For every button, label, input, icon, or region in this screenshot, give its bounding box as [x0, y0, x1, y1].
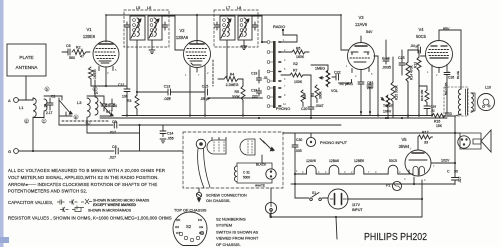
svg-text:INPUT: INPUT [352, 208, 363, 212]
wire screw drop [198, 188, 201, 202]
coil L6 slug arrow [149, 19, 159, 38]
wire V5 cathode drop [421, 180, 423, 217]
svg-text:35W4: 35W4 [399, 144, 410, 149]
wire V3 plate out [374, 56, 378, 116]
svg-text:C21: C21 [347, 82, 353, 86]
ground can1 [149, 47, 155, 54]
coil L8 slug arrow [239, 19, 249, 38]
phono cartridge body [207, 140, 226, 154]
resistor R14 [406, 62, 410, 118]
svg-text:RESISTOR VALUES , SHOWN IN OHM: RESISTOR VALUES , SHOWN IN OHMS, K=1000 … [8, 216, 172, 221]
node B [75, 115, 77, 119]
pilot lamp P1 [392, 181, 401, 190]
wire V4 cathode resistor drop [431, 70, 433, 116]
capacitor C11 [163, 22, 168, 30]
svg-text:2.2MEG: 2.2MEG [226, 83, 239, 87]
transformer T1 core [466, 89, 468, 115]
svg-text:54V: 54V [366, 30, 373, 34]
svg-text:390K: 390K [319, 90, 323, 99]
svg-text:ARROW◂—— INDICATES CLOCKWISE R: ARROW◂—— INDICATES CLOCKWISE ROTATION OF… [8, 182, 157, 187]
wire bottom return [270, 216, 422, 218]
capacitor C1 trimmer [47, 98, 53, 110]
svg-text:EXCEPT WHERE MARKED: EXCEPT WHERE MARKED [93, 203, 137, 207]
svg-text:50C5: 50C5 [416, 34, 427, 39]
capacitor C5 gang section [100, 102, 113, 116]
ground C14 [160, 139, 166, 143]
svg-text:VOLT METER,NO SIGNAL, APPLIED,: VOLT METER,NO SIGNAL, APPLIED,WITH S2 IN… [8, 175, 159, 180]
capacitor C25 [399, 60, 405, 75]
S2 rear view wafer [173, 212, 207, 246]
svg-text:R15 330K: R15 330K [395, 85, 399, 100]
coil L7 turns [227, 18, 229, 36]
wire R7 out [309, 75, 311, 105]
svg-text:560: 560 [69, 56, 75, 60]
resistor R17 [418, 135, 433, 139]
heater bump V2 [323, 165, 348, 174]
phono input pin [310, 141, 312, 143]
wire V5 plate up [417, 142, 419, 151]
svg-text:L10: L10 [485, 86, 491, 90]
svg-text:R7: R7 [293, 69, 298, 73]
interlock socket box [460, 133, 481, 149]
node C [43, 119, 46, 123]
svg-text:1MEG: 1MEG [315, 67, 325, 71]
wire bottom stub [336, 217, 337, 239]
svg-text:.01: .01 [263, 76, 268, 80]
wire antenna lead [19, 76, 27, 100]
coil L1 [33, 98, 36, 117]
coil L6 turns [154, 18, 156, 36]
wire V3 grid in [341, 49, 349, 51]
svg-text:PHONO: PHONO [276, 106, 290, 111]
svg-text:.017: .017 [109, 131, 116, 135]
potentiometer R12 tone [381, 95, 390, 107]
coil L5 winding box [130, 16, 145, 40]
capacitor C24 [383, 50, 389, 64]
motor connector pins [270, 170, 272, 177]
heater bump V3 [305, 165, 323, 174]
wire gang frame left [44, 96, 62, 100]
heater bump V4 [372, 165, 405, 174]
svg-text:C22: C22 [334, 71, 341, 75]
tube V1 pins [99, 67, 113, 72]
svg-text:RADIO: RADIO [273, 24, 285, 29]
wire R15 top [392, 57, 394, 82]
resistor R5 [241, 86, 245, 103]
wire L1 top [19, 98, 34, 100]
svg-text:V1: V1 [86, 27, 92, 32]
ground can2 [241, 40, 247, 50]
svg-text:12BA6: 12BA6 [176, 35, 189, 40]
svg-text:.056: .056 [167, 137, 174, 141]
interlock socket [458, 136, 470, 148]
wire R4 left [218, 78, 224, 80]
wire ground G line [19, 150, 114, 152]
wire R1 bottom [91, 83, 127, 86]
tube V3 plate bar [355, 45, 367, 47]
tube V4 grids [428, 50, 449, 56]
tube V4 50C5 envelope [426, 41, 453, 68]
capacitor C-input V4 [414, 47, 426, 56]
svg-text:30: 30 [454, 170, 458, 174]
svg-text:100K: 100K [294, 80, 303, 84]
capacitor C21 [358, 80, 364, 116]
capacitor C9 [114, 122, 117, 128]
svg-text:50C5: 50C5 [389, 159, 397, 163]
wire V2 plate up [196, 15, 198, 44]
phono speed adjuster [260, 139, 274, 152]
wire 102V drop [454, 116, 456, 176]
svg-text:V5: V5 [401, 137, 407, 142]
wire L7 bottom drop [226, 40, 228, 79]
wire R14 top [407, 50, 409, 62]
svg-text:R3: R3 [127, 99, 131, 103]
svg-text:ANTENNA: ANTENNA [16, 65, 39, 70]
tube V1 plate bar [99, 43, 113, 45]
svg-text:R16: R16 [434, 120, 440, 124]
wire tone bottom [387, 105, 389, 118]
wire V5 output [431, 162, 455, 164]
svg-text:S2: S2 [186, 224, 192, 229]
svg-text:R18 150: R18 150 [420, 89, 424, 101]
wire V2 pins drops [189, 72, 191, 116]
wire osc section frame [87, 96, 104, 99]
wire S2 radio out [281, 30, 297, 42]
svg-text:C30: C30 [296, 138, 302, 142]
tube V3 grid dash [350, 57, 370, 59]
svg-text:9-17: 9-17 [106, 110, 113, 114]
svg-text:P1: P1 [386, 184, 390, 188]
resistor R6 [292, 50, 309, 54]
coil can interiors extra [133, 19, 243, 37]
svg-text:85V: 85V [443, 27, 450, 31]
svg-text:C: C [447, 170, 450, 174]
svg-text:POTENTIOMETERS AND SWITCH S2.: POTENTIOMETERS AND SWITCH S2. [8, 189, 87, 194]
svg-text:12AV6: 12AV6 [306, 159, 316, 163]
svg-text:R6: R6 [296, 47, 301, 51]
wire C7 top [294, 133, 296, 143]
svg-text:C15: C15 [202, 85, 209, 89]
svg-text:200: 200 [367, 86, 373, 90]
svg-text:.005: .005 [295, 149, 302, 153]
heater bump V1 [347, 165, 373, 174]
resistor R18 [425, 90, 429, 104]
wire V3 cathode drop [360, 74, 362, 81]
svg-text:.027: .027 [109, 156, 116, 160]
tube V5 35W4 envelope [405, 150, 431, 176]
power plug p1 [328, 189, 348, 209]
wire motor to black [261, 155, 263, 163]
phono pickup dot [199, 142, 203, 146]
svg-text:TOP OF CHASSIS: TOP OF CHASSIS [174, 208, 207, 213]
svg-text:C 24: C 24 [382, 57, 390, 61]
tube V2 grids [186, 49, 207, 59]
resistor R8 [301, 90, 305, 106]
svg-text:L5: L5 [136, 6, 140, 10]
svg-text:100V: 100V [383, 110, 392, 114]
svg-text:BLUE: BLUE [456, 71, 460, 79]
coil L4 [95, 97, 98, 115]
switch S2 contacts [279, 42, 281, 106]
tube V3 cathode [354, 61, 366, 63]
svg-text:.05 μF: .05 μF [200, 97, 211, 101]
wire R10 top [311, 65, 328, 70]
S2 rear contacts [179, 231, 203, 241]
svg-text:L8: L8 [237, 6, 241, 10]
wire plug to V5 drop [347, 198, 422, 200]
wire L3 bottom loop [87, 118, 140, 133]
capacitor C6 [62, 49, 70, 58]
wire bus y115 right [443, 115, 455, 117]
wire gang dashed link [62, 120, 108, 122]
svg-text:C4: C4 [113, 104, 117, 108]
wire V3 plate drop [341, 15, 348, 50]
svg-text:C23: C23 [367, 81, 373, 85]
svg-text:RO: RO [199, 231, 204, 235]
svg-text:S2: S2 [293, 61, 299, 66]
tube V2 12BA6 envelope [184, 41, 211, 68]
phono cartridge pins [212, 138, 226, 140]
svg-text:CAPACITOR VALUES,: CAPACITOR VALUES, [8, 200, 53, 205]
svg-text:L2: L2 [44, 104, 48, 108]
svg-text:BLACK: BLACK [256, 163, 267, 167]
capacitor C22 [332, 74, 352, 83]
svg-text:SHOWN IN MICRO MICRO FARADS: SHOWN IN MICRO MICRO FARADS [93, 199, 150, 203]
speaker magnet [483, 99, 489, 105]
node D [46, 87, 49, 91]
svg-text:G: G [8, 149, 11, 154]
jack pin [270, 204, 273, 214]
capacitor C17 [253, 22, 258, 30]
wire bus y125 cont [119, 124, 341, 126]
wire AVC dashed [212, 60, 214, 86]
svg-text:L6: L6 [147, 6, 151, 10]
capacitor C8 [116, 148, 119, 154]
wire bus y125 [59, 124, 113, 126]
wire phono spine [294, 149, 296, 199]
resistor R9 [315, 85, 319, 103]
phono motor dashes [248, 141, 252, 154]
svg-text:O3: O3 [175, 225, 179, 229]
coil L8 turns [244, 18, 246, 36]
speaker LS [478, 94, 495, 111]
wire heater chain base [295, 173, 305, 175]
svg-text:PHILIPS PH202: PHILIPS PH202 [364, 232, 427, 243]
svg-text:R13: R13 [414, 62, 418, 68]
wire bottom left hook [269, 214, 271, 217]
jack J1 [265, 202, 276, 213]
phono tonearm [198, 149, 210, 189]
capacitor C4 trimmer [109, 99, 115, 111]
coil L7 winding box [220, 16, 235, 40]
svg-text:VOL: VOL [331, 89, 338, 93]
wire L4 top to grid [94, 80, 96, 96]
wire C12 below [126, 92, 128, 116]
capacitor C18 [257, 88, 262, 96]
resistor R15 [391, 82, 395, 118]
svg-text:L3: L3 [77, 100, 82, 105]
wire phono jack stem [310, 133, 312, 137]
svg-text:S1: S1 [312, 191, 316, 195]
scan edge strip [0, 0, 4, 247]
wire V1 cathode down [105, 71, 107, 86]
svg-text:R8: R8 [303, 95, 307, 99]
resistor R2 [72, 50, 90, 55]
potentiometer R10 volume [320, 70, 331, 87]
svg-text:.027: .027 [458, 176, 462, 183]
wire R17 around [417, 137, 419, 142]
wire L1 to ground bus [32, 118, 34, 152]
svg-text:47: 47 [80, 55, 84, 59]
coil L9 [234, 166, 237, 182]
svg-text:33: 33 [424, 141, 428, 145]
resistor R13 [417, 57, 421, 116]
capacitor C15 [200, 89, 263, 98]
tube V3 12AV6 envelope [348, 43, 375, 70]
speaker voice coil [471, 93, 475, 111]
svg-text:15K: 15K [436, 124, 443, 128]
tube V4 pins [432, 65, 447, 73]
motor connector M1 [266, 169, 276, 179]
wire R18 top [419, 86, 427, 90]
svg-text:330K: 330K [232, 95, 241, 99]
svg-text:C12: C12 [118, 83, 124, 87]
phono wiring loop [237, 163, 272, 183]
svg-text:TONE: TONE [383, 104, 393, 108]
coil L2 [44, 99, 47, 111]
capacitor C20 [308, 105, 314, 118]
interlock pins [461, 138, 468, 145]
wire can1 to V2 grid [162, 16, 184, 50]
tube V1 12BE6 envelope [93, 41, 119, 67]
screw slot [197, 194, 202, 197]
screw connection symbol [196, 192, 201, 197]
wire S1 to plug [322, 197, 328, 199]
svg-text:O7: O7 [176, 231, 180, 235]
svg-text:C1: C1 [51, 95, 55, 99]
wire B+ top line [106, 15, 341, 42]
svg-text:C25: C25 [398, 56, 405, 60]
svg-text:L4: L4 [94, 91, 98, 95]
coil L8 winding box [238, 16, 252, 40]
resistor R3 [135, 95, 139, 115]
wire V5 heater pilot tap [413, 177, 415, 184]
coil L5 slug arrow [131, 19, 141, 38]
tube V3 pins [352, 68, 369, 74]
wire junction riser [139, 125, 141, 151]
svg-text:5000: 5000 [243, 176, 250, 180]
capacitor C26 [444, 70, 450, 113]
svg-text:L1: L1 [19, 105, 24, 110]
svg-text:SCREW CONNECTION: SCREW CONNECTION [206, 194, 247, 198]
transformer T1 output box [444, 87, 468, 116]
wire L2 bottom [33, 112, 44, 118]
svg-text:C14: C14 [167, 132, 173, 136]
wire ring to bar links [270, 42, 273, 106]
IF transformer T2 can (L7 L8) [214, 10, 258, 47]
svg-text:R17: R17 [422, 131, 429, 135]
node E [26, 119, 28, 123]
wire V4 B+ right [460, 30, 462, 89]
capacitor C7 phono input [292, 143, 298, 149]
wire R4 junction [241, 79, 243, 86]
phono cartridge dashes [214, 142, 224, 153]
svg-text:ON CHASSIS.: ON CHASSIS. [206, 199, 230, 203]
capacitor C2 gang section [59, 100, 72, 116]
wire R5 bottom [242, 101, 244, 116]
tube V1 grids [95, 49, 116, 59]
svg-text:C8: C8 [112, 145, 117, 149]
svg-text:160K: 160K [296, 55, 305, 59]
plug prongs [335, 194, 342, 205]
resistor R1 [89, 67, 94, 83]
svg-text:12BE6: 12BE6 [83, 34, 96, 39]
svg-text:12BE6: 12BE6 [354, 159, 364, 163]
svg-text:ALL DC VOLTAGES MEASURED TO B: ALL DC VOLTAGES MEASURED TO B MINUS WITH… [8, 168, 165, 173]
wire jack bottom [270, 214, 272, 217]
svg-text:.0035: .0035 [382, 66, 391, 70]
svg-text:V3: V3 [358, 15, 364, 20]
switch S2 wafer bar A [273, 41, 276, 82]
svg-text:PHONO INPUT: PHONO INPUT [320, 140, 348, 145]
svg-text:R4: R4 [230, 73, 235, 77]
svg-text:117V: 117V [352, 203, 361, 207]
svg-text:100: 100 [122, 95, 128, 99]
plate antenna box [7, 44, 46, 76]
interlock blade [473, 139, 481, 144]
coil L6 winding box [148, 16, 162, 40]
svg-text:L7: L7 [226, 6, 230, 10]
wire V4 plate top [439, 30, 461, 41]
svg-text:OR: OR [176, 218, 180, 222]
wire jack top [270, 188, 272, 202]
wire grid V4 [408, 49, 414, 51]
svg-text:220: 220 [252, 95, 258, 99]
svg-text:A: A [8, 98, 11, 103]
svg-text:.02: .02 [431, 109, 436, 113]
wire heater to V5 [405, 173, 413, 175]
wire can2 out [252, 16, 262, 42]
svg-text:C26: C26 [448, 76, 454, 80]
svg-text:12AV6: 12AV6 [355, 22, 368, 27]
capacitor C29 [452, 176, 459, 185]
tube V5 cathode bar [409, 159, 427, 161]
wire C24 line [385, 40, 387, 50]
resistor R4 [224, 77, 241, 82]
wire bus y118 [100, 117, 447, 119]
svg-text:C3: C3 [105, 104, 109, 108]
wire G line cont [120, 150, 183, 152]
wire V1 grid line [137, 91, 150, 93]
node A terminal [14, 98, 19, 103]
capacitor symbols in caption [57, 200, 65, 205]
node F [94, 87, 96, 91]
tube V2 plate bar [190, 43, 204, 45]
phono motor body [240, 139, 255, 155]
tube V2 cathode [190, 61, 202, 65]
switch S1 [310, 193, 322, 201]
tube V3 top stem [360, 36, 362, 43]
svg-text:R5: R5 [235, 90, 240, 94]
wire S2 to R7 [281, 74, 290, 76]
wire L5 bottom drop [136, 40, 138, 95]
coil L7 slug arrow [221, 19, 231, 38]
wire C19 top [258, 70, 260, 75]
switch S2 wafer bar B [273, 86, 276, 108]
capacitor C23 [367, 82, 373, 116]
svg-text:SWITCH IS SHOWN AS: SWITCH IS SHOWN AS [216, 230, 259, 235]
IF transformer T1 can (L5 L6) [124, 10, 169, 47]
